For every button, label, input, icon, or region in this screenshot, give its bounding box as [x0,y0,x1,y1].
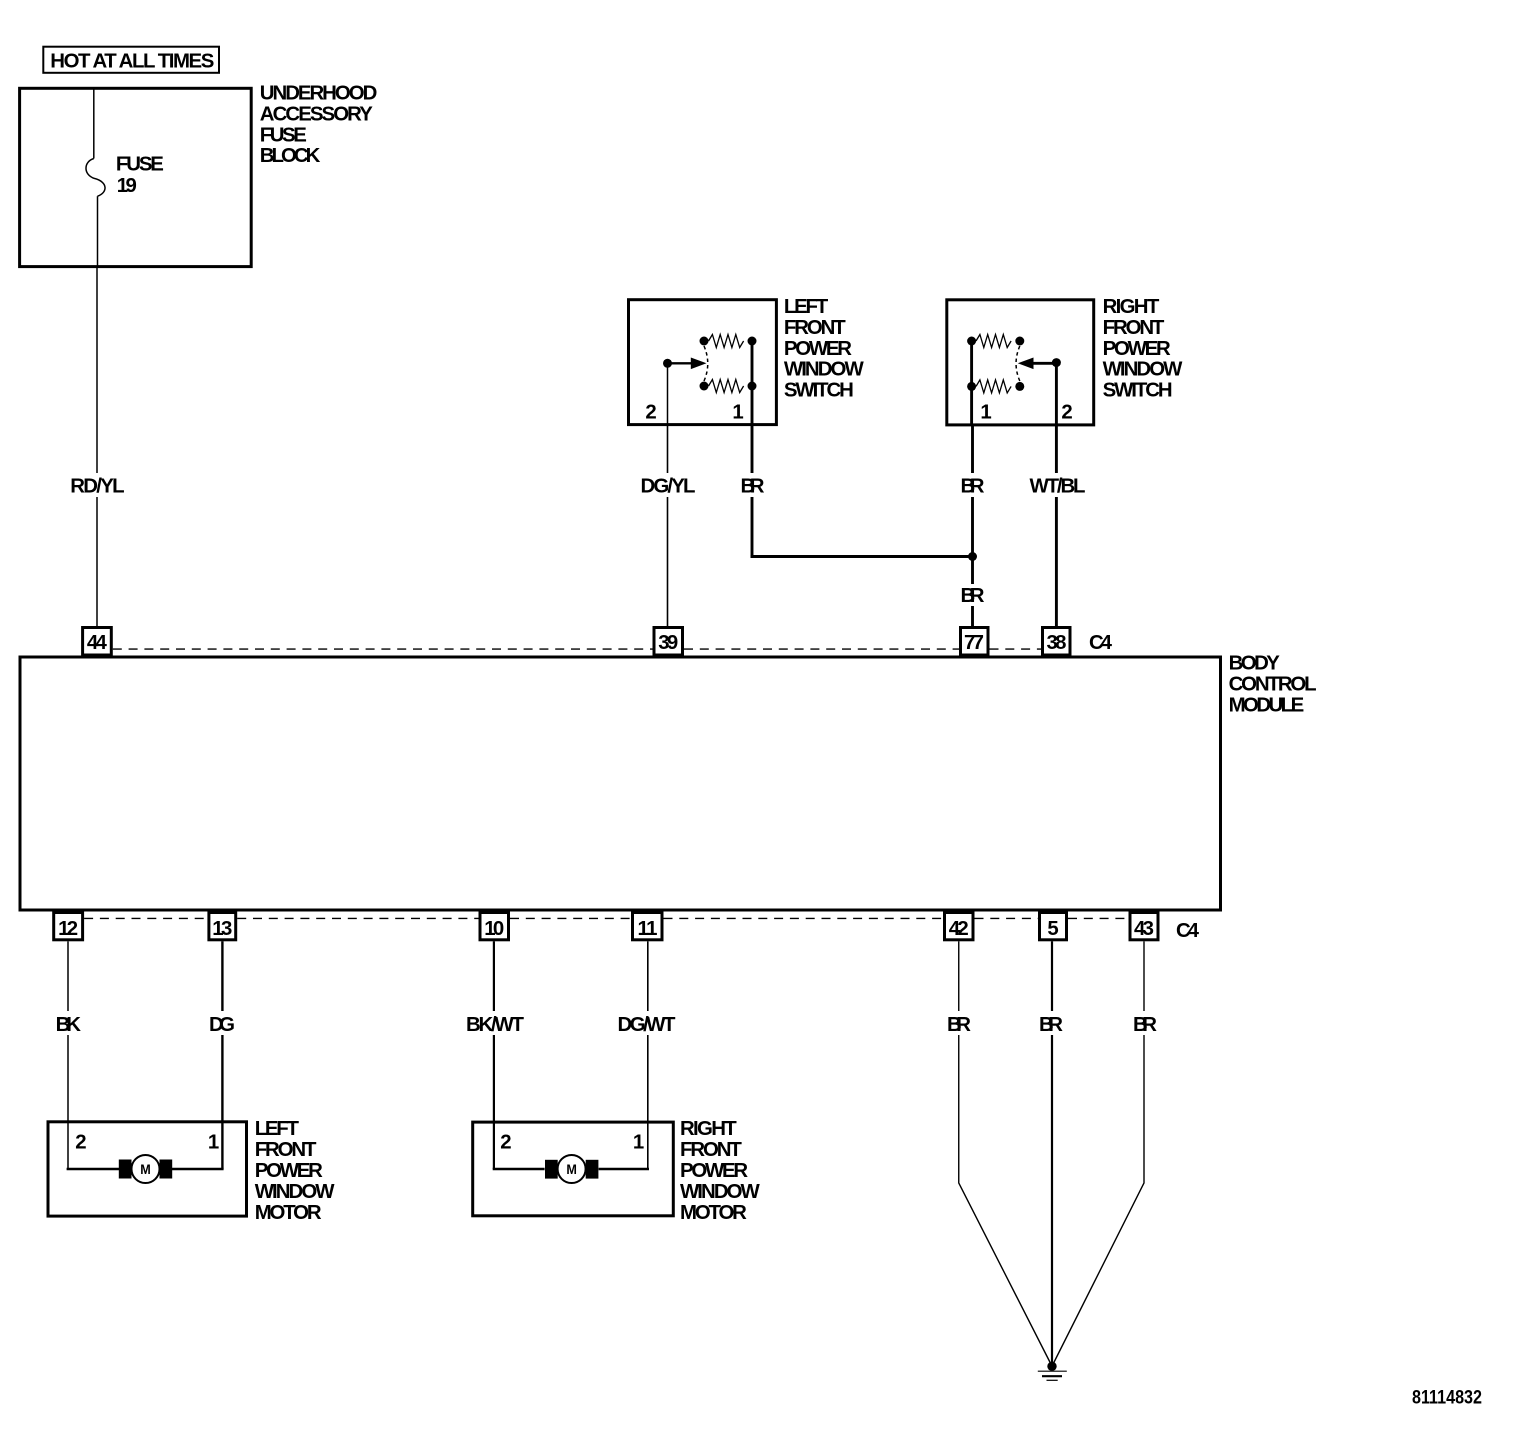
svg-text:MOTOR: MOTOR [680,1202,747,1224]
right front power window motor box M2 [473,1122,674,1216]
svg-text:BR: BR [1039,1014,1063,1036]
svg-text:DG: DG [209,1014,235,1036]
wire BK BCM pin 12 to left motor [67,941,69,1011]
svg-text:2: 2 [75,1132,86,1154]
S2 arrow shaft [1032,362,1056,365]
svg-text:12: 12 [58,918,78,940]
S1 node dots [700,337,709,346]
svg-text:FRONT: FRONT [255,1139,317,1161]
svg-text:1: 1 [732,402,743,424]
M1 brush left [119,1160,132,1179]
svg-text:2: 2 [1061,402,1072,424]
svg-text:BR: BR [1133,1014,1157,1036]
M1 motor circle [132,1155,160,1183]
M2 motor circle [558,1155,586,1183]
svg-text:1: 1 [208,1132,219,1154]
svg-text:2: 2 [645,402,656,424]
left front power window motor box M1 [48,1122,247,1216]
M2 terminal wire right [599,1168,649,1171]
svg-text:POWER: POWER [1103,338,1171,360]
left front power window switch box S1 [629,300,777,425]
svg-text:81114832: 81114832 [1412,1388,1482,1409]
S1 arrow shaft [668,362,693,364]
wire BK/WT BCM pin 10 to right motor [493,941,495,1011]
svg-text:DG/YL: DG/YL [641,476,696,498]
svg-text:10: 10 [484,918,504,940]
svg-text:POWER: POWER [255,1160,323,1182]
pin 12 box [54,913,83,940]
wire BR junction to BCM pin 77 [971,557,974,585]
wire DG/WT BCM pin 11 to right motor [647,941,649,1011]
svg-text:BR: BR [947,1014,971,1036]
svg-text:SWITCH: SWITCH [1103,380,1173,402]
svg-text:M: M [140,1162,151,1178]
S1 arrowhead [691,358,707,370]
wire BR BCM pin 42 to ground [958,941,960,1011]
svg-text:M: M [566,1162,577,1178]
S1 dashed contact arc [704,346,708,381]
svg-text:MODULE: MODULE [1229,694,1305,716]
S2 node dots [967,337,976,346]
pin 11 box [633,913,663,940]
pin 77 box [961,628,989,656]
BCM bottom connector dashed line C4 [84,917,1128,919]
svg-text:FRONT: FRONT [784,317,846,339]
svg-text:77: 77 [964,632,984,654]
svg-text:1: 1 [633,1132,644,1154]
svg-text:RD/YL: RD/YL [70,476,124,498]
svg-text:BR: BR [741,476,765,498]
svg-text:38: 38 [1047,632,1067,654]
S1 pin2 internal wire [667,363,669,426]
svg-text:13: 13 [212,918,232,940]
svg-text:MOTOR: MOTOR [255,1202,322,1224]
svg-text:BK/WT: BK/WT [466,1014,525,1036]
svg-text:HOT AT ALL TIMES: HOT AT ALL TIMES [50,51,214,73]
svg-text:1: 1 [980,402,991,424]
svg-text:FRONT: FRONT [680,1139,742,1161]
svg-text:43: 43 [1134,918,1154,940]
wire DG/YL S1 pin2 to BCM pin 39 [667,426,669,473]
ground node dot [1047,1362,1056,1371]
S1 resistor bottom zigzag [709,380,744,393]
pin 44 box [83,628,112,656]
svg-text:WINDOW: WINDOW [680,1181,761,1203]
svg-text:19: 19 [117,175,137,197]
svg-text:BLOCK: BLOCK [260,145,321,167]
S1 resistor top zigzag [709,335,744,348]
S2 pin2 internal wire [1055,363,1058,426]
svg-text:SWITCH: SWITCH [784,380,854,402]
S2 arrowhead [1018,358,1034,370]
M1 brush right [160,1160,173,1179]
M2 brush right [586,1160,599,1179]
svg-text:FRONT: FRONT [1103,317,1165,339]
M1 terminal wire right [172,1168,224,1171]
pin 10 box [480,913,509,940]
svg-text:44: 44 [87,632,108,654]
svg-text:BK: BK [56,1014,82,1036]
M2 brush left [545,1160,558,1179]
wire BR horizontal to junction [751,555,973,558]
pin 5 box [1040,913,1067,940]
wire RD/YL fuse block to pin 44 [96,268,98,473]
M1 terminal wire left [67,1168,119,1171]
pin 43 box [1130,913,1158,940]
svg-text:C4: C4 [1176,920,1200,942]
pin 39 box [654,628,683,656]
wire BR BCM pin 43 to ground [1143,941,1145,1011]
svg-text:CONTROL: CONTROL [1229,674,1317,696]
svg-text:LEFT: LEFT [784,296,829,318]
BCM top connector dashed line C4 [113,648,1041,650]
S2 dashed contact arc [1016,346,1020,381]
S2 resistor bottom zigzag [976,380,1011,393]
pin 38 box [1043,628,1071,656]
svg-text:WINDOW: WINDOW [255,1181,336,1203]
svg-text:RIGHT: RIGHT [1103,296,1160,318]
wire BR BCM pin 5 to ground [1051,941,1053,1011]
svg-text:POWER: POWER [784,338,852,360]
svg-text:WINDOW: WINDOW [784,359,865,381]
junction node dot [968,552,977,561]
wire fuse feed (top segment inside fuse block) [93,88,95,159]
svg-text:39: 39 [658,632,678,654]
body control module box [20,657,1221,910]
svg-text:2: 2 [500,1132,511,1154]
svg-text:C4: C4 [1089,632,1113,654]
wire DG BCM pin 13 to left motor [221,941,223,1011]
ground symbol lines [1038,1370,1067,1372]
HOT AT ALL TIMES box [43,47,219,73]
svg-text:42: 42 [949,918,969,940]
svg-text:DG/WT: DG/WT [618,1014,677,1036]
S2 pin1 internal wire [970,341,973,426]
wire BR S2 pin1 to junction [971,426,974,473]
pin 13 box [209,913,236,940]
M2 terminal wire left [493,1168,545,1171]
right front power window switch box S2 [947,300,1094,425]
svg-text:BR: BR [961,585,985,607]
S1 pin1 internal wire [751,341,754,426]
svg-text:5: 5 [1047,918,1058,940]
wire fuse to box bottom [97,196,99,268]
S2 resistor top zigzag [976,335,1011,348]
svg-text:11: 11 [638,918,658,940]
svg-text:UNDERHOOD: UNDERHOOD [260,83,378,105]
svg-text:WT/BL: WT/BL [1030,476,1086,498]
svg-text:ACCESSORY: ACCESSORY [260,103,373,125]
svg-text:FUSE: FUSE [116,154,164,176]
svg-text:POWER: POWER [680,1160,748,1182]
svg-text:RIGHT: RIGHT [680,1118,737,1140]
pin 42 box [945,913,974,940]
wire WT/BL S2 pin2 to BCM pin 38 [1055,426,1058,473]
svg-text:WINDOW: WINDOW [1103,359,1184,381]
wire BR S1 pin1 down [751,426,754,473]
svg-text:BODY: BODY [1229,653,1281,675]
svg-text:FUSE: FUSE [260,124,307,146]
svg-text:BR: BR [961,476,985,498]
svg-text:LEFT: LEFT [255,1118,300,1140]
underhood accessory fuse block box [20,88,252,266]
fuse F19 element [86,159,105,197]
